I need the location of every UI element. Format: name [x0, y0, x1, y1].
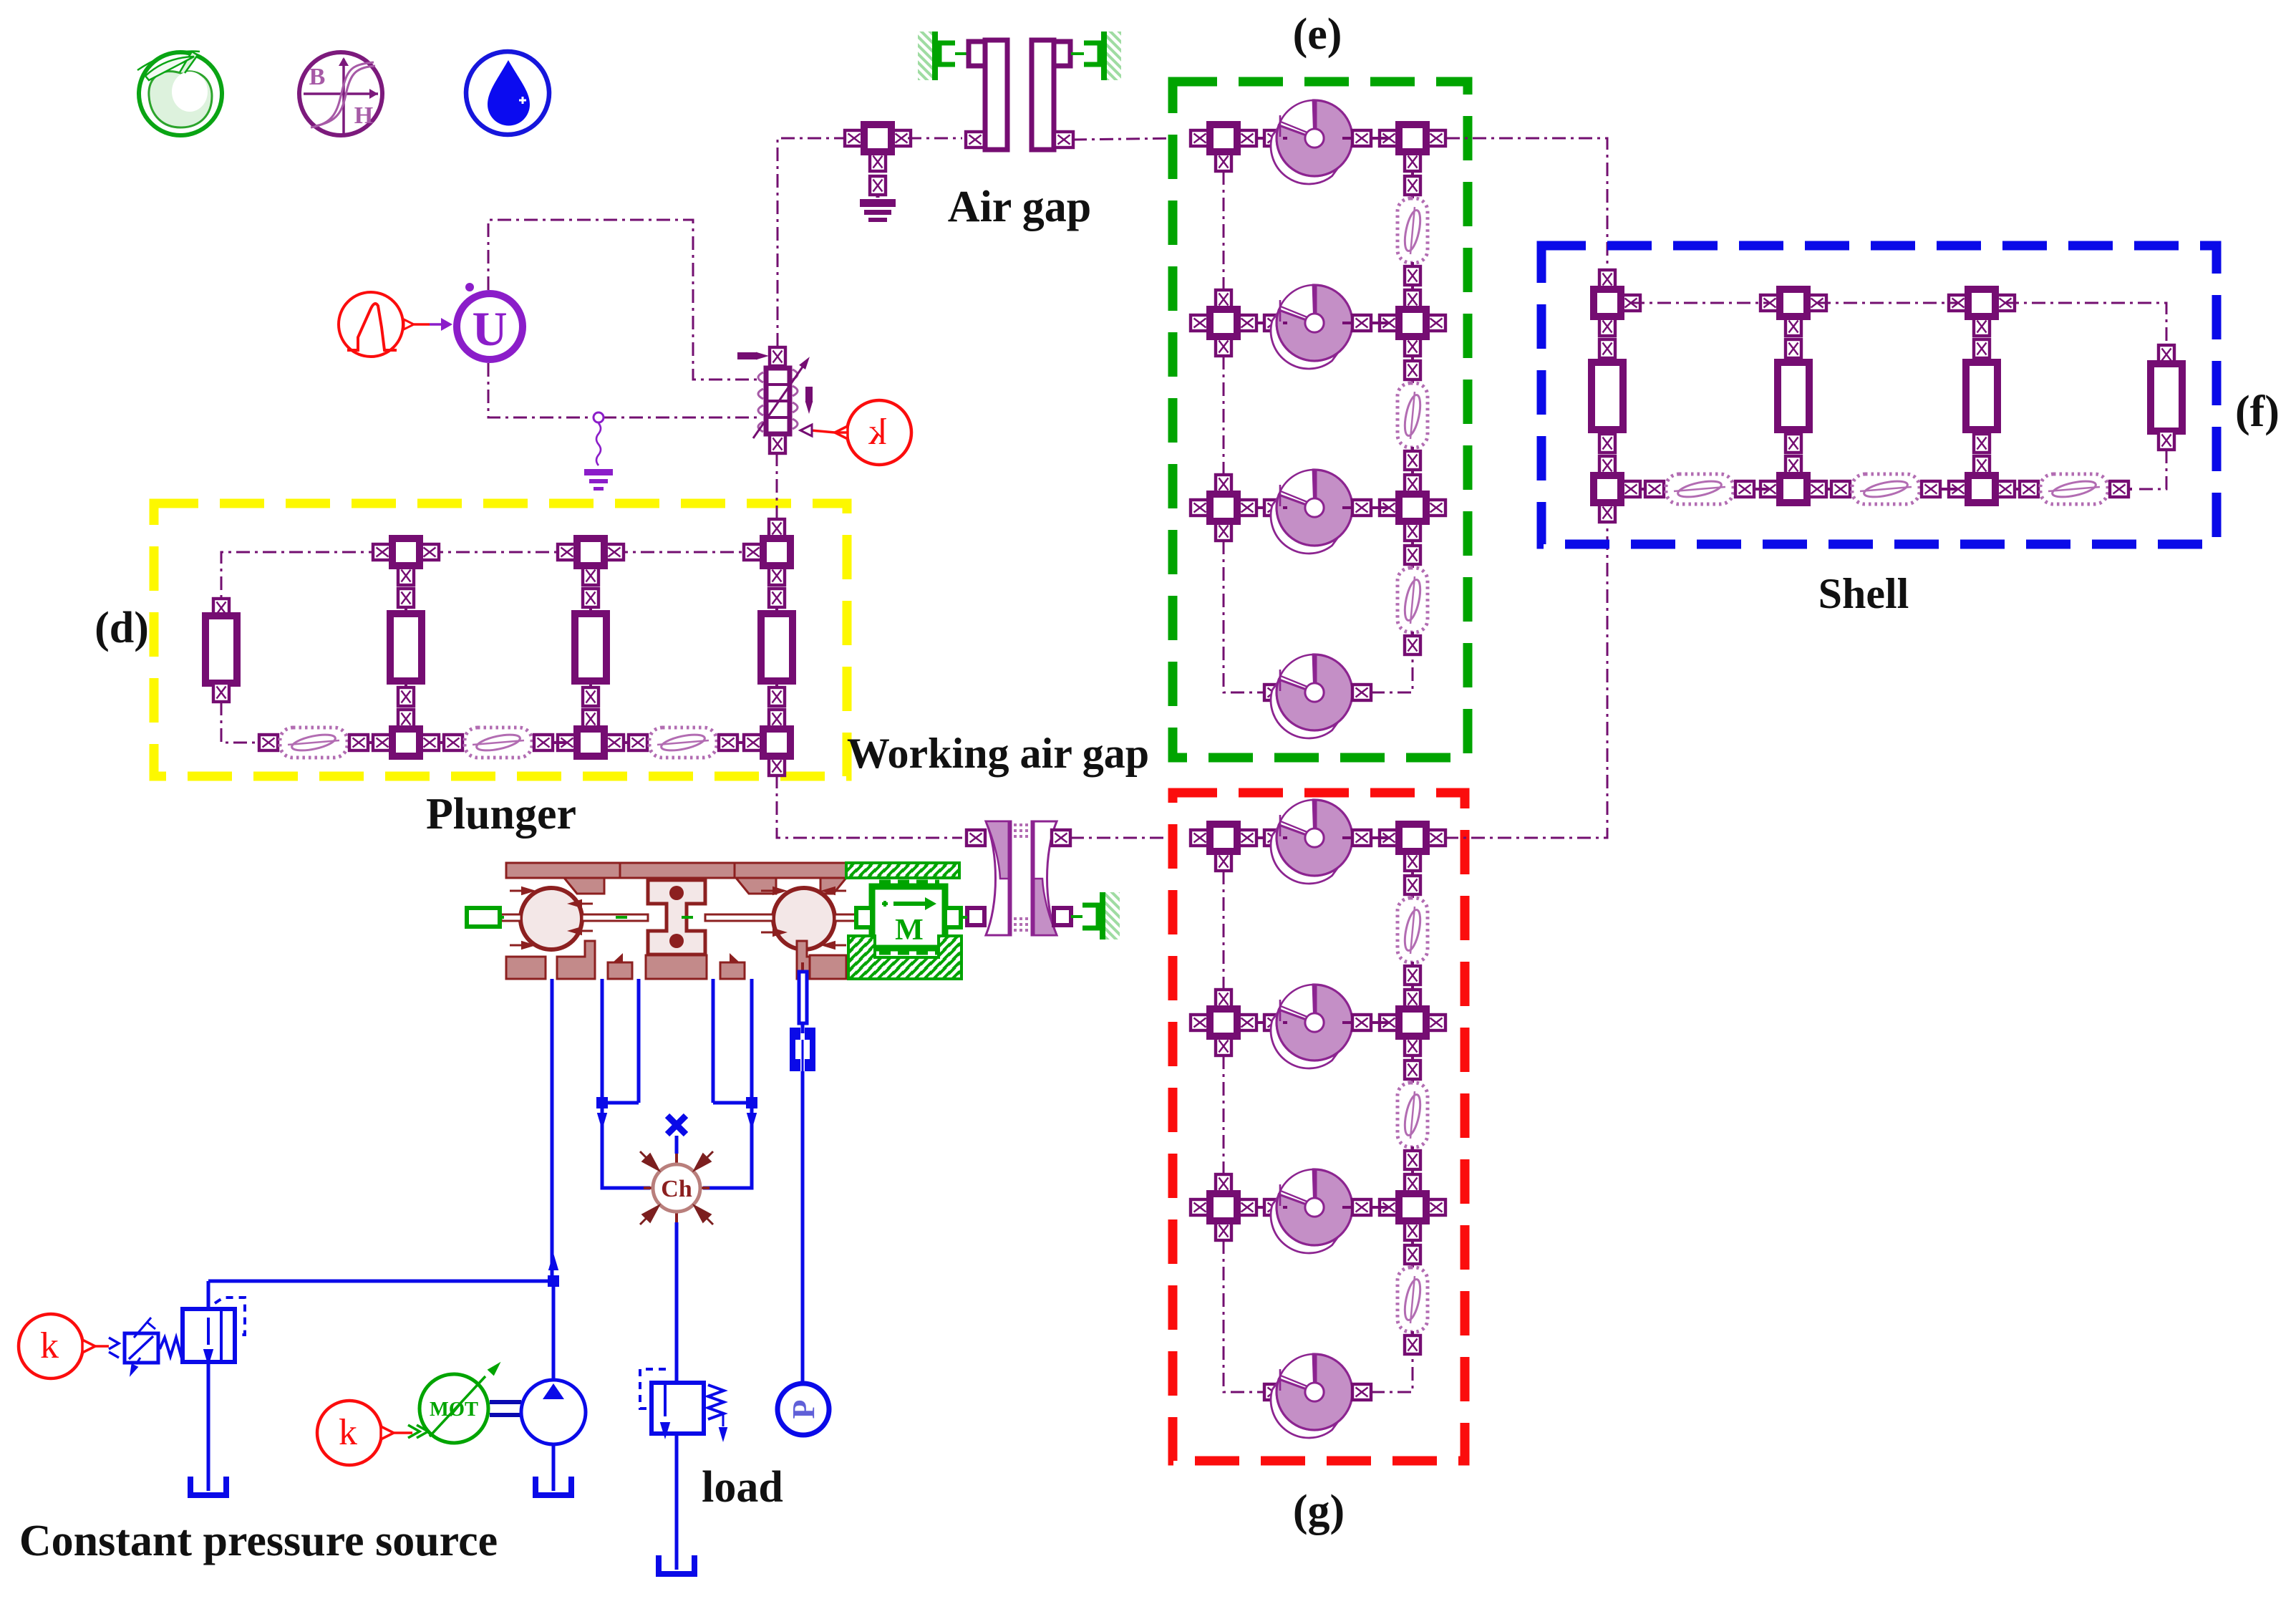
- port g row3 right: [1352, 1199, 1371, 1215]
- link: [368, 741, 374, 744]
- svg-text:U: U: [472, 301, 507, 356]
- svg-text:k: k: [40, 1325, 59, 1366]
- magnetic junction shell bot1: [1594, 456, 1640, 522]
- wire plunger col1 bottom corner: [221, 702, 259, 743]
- link: [1411, 1239, 1414, 1268]
- electrical ground: [584, 469, 613, 491]
- spool valve rods: [501, 914, 856, 921]
- gain k input to relief valve: [19, 1314, 119, 1378]
- wire air-gap junction to coil: [778, 138, 848, 347]
- wire shell top row to col4: [2005, 303, 2166, 345]
- svg-text:(e): (e): [1293, 10, 1342, 59]
- gain k input to motor: [317, 1401, 428, 1465]
- port caps d2 right: [534, 735, 553, 750]
- dashed box (f) shell group: [1541, 246, 2217, 544]
- electromagnetic converter (coil): [737, 347, 813, 453]
- port caps d2 left: [444, 735, 462, 750]
- port g caps2 bottom: [1405, 1151, 1420, 1169]
- leakage permeance e 3: [1398, 568, 1428, 632]
- svg-text:load: load: [702, 1463, 783, 1512]
- magnetic junction g R2: [1380, 990, 1445, 1055]
- leakage permeance g 1: [1398, 898, 1428, 962]
- port e row1 right: [1352, 130, 1371, 146]
- magnetic junction shell bot2: [1760, 456, 1826, 503]
- port g row1 left: [1264, 830, 1283, 846]
- port caps f3 left: [2020, 481, 2038, 497]
- link: [1411, 262, 1414, 266]
- wire e left column 2: [1223, 356, 1225, 475]
- port e row1 left: [1264, 130, 1283, 146]
- label (g): [1293, 1487, 1345, 1535]
- motor MOT: [420, 1362, 501, 1443]
- port e row2 left: [1264, 315, 1283, 331]
- link: [1256, 137, 1389, 140]
- link: [2014, 488, 2132, 491]
- spool valve bottom rail: [506, 941, 846, 979]
- magnetic junction shell bot3: [1949, 456, 2015, 503]
- port g row4 left: [1264, 1384, 1283, 1400]
- reluctance plunger R2 column: [390, 589, 422, 706]
- magnetic junction e R3: [1380, 475, 1445, 541]
- port g row4 right: [1352, 1384, 1371, 1400]
- pressure control throttle: [125, 1318, 183, 1377]
- svg-text:Air gap: Air gap: [948, 183, 1091, 231]
- port e caps2 bottom: [1405, 451, 1420, 470]
- wire shell top row a: [1631, 302, 1768, 304]
- magnetic junction plunger bot2: [373, 710, 439, 756]
- dashed box (e): [1173, 82, 1468, 758]
- port caps f3 right: [2110, 481, 2128, 497]
- magnetic junction shell top3: [1949, 289, 2015, 336]
- label Plunger: [426, 790, 576, 839]
- wire U- toward ground node: [488, 363, 594, 417]
- magnetic junction plunger top3: [558, 538, 624, 585]
- motor shaft: [490, 1402, 521, 1415]
- wire e left column 1: [1223, 171, 1225, 290]
- svg-text:M: M: [895, 914, 924, 947]
- port e row4 left: [1264, 685, 1283, 700]
- label (d): [95, 604, 149, 652]
- hydraulic tank (load): [659, 1554, 694, 1574]
- label (f): [2235, 387, 2280, 436]
- hydraulic line load to tank: [675, 1434, 679, 1555]
- label Shell: [1818, 570, 1909, 617]
- label load: [702, 1463, 783, 1512]
- wire plunger top row b: [430, 551, 567, 554]
- port to magnetic ground: [870, 176, 886, 195]
- link: [1411, 539, 1414, 569]
- icon drop (hydraulic library): [466, 52, 549, 135]
- hydraulic line to orifice: [799, 962, 807, 1033]
- link: [1411, 285, 1414, 290]
- plugged port X: [667, 1116, 686, 1154]
- port g caps1 bottom: [1405, 966, 1420, 985]
- wire plunger col1 top corner: [221, 552, 382, 599]
- spool valve body top rail: [506, 863, 846, 894]
- magnetic junction plunger top4: [744, 519, 790, 585]
- wire g bottom left corner: [1224, 1240, 1264, 1392]
- svg-text:k: k: [339, 1412, 357, 1453]
- port e row3 right: [1352, 500, 1371, 516]
- magnetic junction e R1: [1380, 125, 1445, 171]
- port g caps2 top: [1405, 1061, 1420, 1079]
- wire plunger top row c: [614, 551, 753, 554]
- hydraulic port (left pilot): [467, 908, 504, 927]
- link: [1411, 1331, 1414, 1335]
- gain k input to coil: [800, 400, 911, 465]
- hydraulic line supply tee: [208, 1253, 559, 1287]
- magnetic ground (air gap): [860, 199, 896, 222]
- port e row2 right: [1352, 315, 1371, 331]
- leakage permeance d3: [649, 728, 717, 758]
- port e caps2 top: [1405, 361, 1420, 380]
- magnetic junction g R1: [1380, 824, 1445, 871]
- port g row1 right: [1352, 830, 1371, 846]
- leakage permeance e 2: [1398, 383, 1428, 448]
- wire U+ to coil terminal: [488, 220, 762, 380]
- port g caps1 top: [1405, 876, 1420, 894]
- signal wire to voltage source: [404, 318, 452, 331]
- hydraulic tank (pump): [536, 1475, 571, 1495]
- leakage permeance g 2: [1398, 1083, 1428, 1147]
- wire coil to plunger: [776, 453, 778, 520]
- svg-text:Ch: Ch: [661, 1176, 692, 1202]
- port caps d1 right: [349, 735, 368, 750]
- port e caps1 top: [1405, 176, 1420, 195]
- label Air gap: [948, 183, 1091, 231]
- leakage permeance f2: [1852, 474, 1919, 504]
- port caps d1 left: [259, 735, 278, 750]
- link: [1411, 354, 1414, 384]
- magnetic junction e R2: [1380, 290, 1445, 356]
- reluctance plunger R3 column: [575, 589, 606, 706]
- svg-text:(d): (d): [95, 604, 149, 652]
- orifice restrictor: [790, 1028, 815, 1071]
- hydraulic tank (source): [190, 1475, 226, 1495]
- right mechanical anchor: [1071, 892, 1120, 939]
- link: [876, 195, 880, 198]
- wire g left column 1: [1223, 871, 1225, 990]
- reluctance plunger R4 column: [761, 589, 793, 706]
- hydraulic line pump up: [552, 1281, 556, 1380]
- port caps d3 left: [629, 735, 647, 750]
- magnetic junction shell top1: [1594, 270, 1640, 336]
- link: [1411, 170, 1414, 199]
- port caps f1 right: [1735, 481, 1754, 497]
- reluctance shell R4 column: [2151, 345, 2182, 450]
- magnetic junction plunger top2: [373, 538, 439, 585]
- magnetic core element e row1: [1271, 100, 1352, 184]
- port e caps1 bottom: [1405, 266, 1420, 285]
- link: [1411, 632, 1414, 636]
- link: [623, 741, 745, 744]
- wire shell col4 to bottom row: [2139, 450, 2166, 489]
- wire shell top row b: [1817, 302, 1957, 304]
- magnetic core element g row4: [1271, 1354, 1352, 1438]
- label Working air gap: [847, 730, 1149, 777]
- reluctance shell R1 column: [1592, 339, 1623, 453]
- leakage permeance d1: [280, 728, 347, 758]
- pressure relief valve (source): [183, 1298, 245, 1366]
- spool valve left piston: [510, 887, 593, 950]
- wire junction to air-gap left pole: [908, 137, 962, 140]
- mass cradle (green hatched): [848, 936, 961, 979]
- link: [1411, 1146, 1414, 1151]
- dashed box (g): [1173, 793, 1465, 1461]
- hydraulic line A to chamber: [602, 1103, 650, 1188]
- magnetic junction g R3: [1380, 1174, 1445, 1240]
- port g row2 right: [1352, 1015, 1371, 1030]
- port caps f2 left: [1831, 481, 1850, 497]
- port g row3 left: [1264, 1199, 1283, 1215]
- port e caps3 bottom: [1405, 636, 1420, 654]
- port e row4 right: [1352, 685, 1371, 700]
- leakage permeance g 3: [1398, 1267, 1428, 1332]
- relief valve (load): [640, 1369, 727, 1442]
- svg-text:Working air gap: Working air gap: [847, 730, 1149, 777]
- voltage source U: [457, 283, 523, 359]
- hydraulic line A1: [601, 979, 604, 1103]
- link: [1411, 1169, 1414, 1174]
- svg-text:(f): (f): [2235, 387, 2280, 436]
- link: [1256, 1021, 1389, 1024]
- hydraulic pump: [521, 1380, 586, 1444]
- chamber Ch: [640, 1151, 713, 1224]
- node electrical (junction): [594, 412, 762, 465]
- port g row2 left: [1264, 1015, 1283, 1030]
- magnetic junction plunger bot4: [744, 710, 790, 776]
- magnetic junction e L3: [1191, 475, 1256, 541]
- magnetic junction g L3: [1191, 1174, 1256, 1240]
- svg-text:k: k: [868, 412, 887, 453]
- leakage permeance f3: [2040, 474, 2108, 504]
- magnetic core element e row4: [1271, 654, 1352, 738]
- wire air gap to stator box: [1073, 138, 1177, 140]
- magnetic junction plunger bot3: [558, 710, 624, 756]
- port e caps3 top: [1405, 546, 1420, 564]
- magnetic junction g L2: [1191, 990, 1256, 1055]
- link: [1411, 869, 1414, 899]
- port e row3 left: [1264, 500, 1283, 516]
- hydraulic line B1: [713, 979, 752, 1103]
- wire stator box to shell box: [1446, 138, 1607, 271]
- hydraulic line B2: [746, 979, 757, 1130]
- icon B-H hysteresis (magnetic library): [299, 52, 382, 135]
- svg-text:Plunger: Plunger: [426, 790, 576, 839]
- mass block M: [856, 881, 967, 953]
- magnetic junction e L1: [1191, 125, 1256, 171]
- port g caps3 bottom: [1405, 1335, 1420, 1354]
- magnetic T-junction (air gap): [845, 125, 911, 171]
- leakage permeance d2: [465, 728, 532, 758]
- reluctance shell R3 column: [1966, 339, 1997, 453]
- port caps d3 right: [719, 735, 737, 750]
- magnetic core element g row2: [1271, 985, 1352, 1068]
- hydraulic line pump to tank: [552, 1444, 556, 1477]
- svg-text:B: B: [309, 64, 326, 90]
- link: [1256, 1206, 1389, 1209]
- working air gap element: [967, 821, 1071, 935]
- magnetic junction e L2: [1191, 290, 1256, 356]
- link: [1411, 447, 1414, 451]
- magnetic core element g row1: [1271, 800, 1352, 884]
- wire g left column 2: [1223, 1055, 1225, 1174]
- link: [1826, 488, 1957, 491]
- link: [1411, 470, 1414, 475]
- link: [438, 741, 566, 744]
- magnetic junction shell top2: [1760, 289, 1826, 336]
- reluctance shell R2 column: [1778, 339, 1809, 453]
- label (e): [1293, 10, 1342, 59]
- link: [1256, 322, 1389, 324]
- magnetic core element e row2: [1271, 285, 1352, 369]
- link: [1256, 506, 1389, 509]
- link: [1411, 1054, 1414, 1083]
- magnetic junction g L1: [1191, 824, 1256, 871]
- wire plunger to working air gap: [777, 775, 962, 838]
- magnetic core element g row3: [1271, 1169, 1352, 1253]
- link: [1639, 488, 1768, 491]
- air gap element: [918, 32, 1121, 150]
- svg-text:(g): (g): [1293, 1487, 1345, 1535]
- dashed box (d) plunger group: [154, 503, 847, 776]
- svg-text:Constant pressure source: Constant pressure source: [19, 1517, 498, 1565]
- label Constant pressure source: [19, 1517, 498, 1565]
- spool valve right piston: [761, 887, 846, 950]
- hydraulic line orifice to gauge: [801, 1071, 805, 1383]
- hydraulic line B to chamber: [703, 1103, 752, 1188]
- hydraulic line P (pump to valve): [551, 979, 554, 1281]
- wire e bottom right corner: [1371, 654, 1413, 692]
- port caps f1 left: [1645, 481, 1664, 497]
- signal source (input waveform): [339, 292, 403, 357]
- svg-text:P: P: [786, 1400, 821, 1419]
- reluctance plunger R1: [205, 599, 237, 702]
- magnetic core element e row3: [1271, 470, 1352, 554]
- icon fruit (mechanical library): [137, 52, 222, 135]
- port g caps3 top: [1405, 1245, 1420, 1264]
- spool valve center land: [648, 880, 705, 955]
- hydraulic line chamber to load valve: [675, 1222, 679, 1383]
- pressure gauge P: [778, 1383, 829, 1435]
- spool valve moving sleeve (green hatched): [846, 863, 959, 878]
- link: [1411, 962, 1414, 966]
- hydraulic line relief to junction: [207, 1281, 210, 1309]
- hydraulic line relief to tank: [207, 1362, 210, 1477]
- leakage permeance e 1: [1398, 198, 1428, 263]
- wire e bottom left corner: [1224, 541, 1264, 692]
- port caps f2 right: [1922, 481, 1940, 497]
- wire g bottom right corner: [1371, 1354, 1413, 1392]
- wire working air gap to mover box: [1070, 837, 1177, 839]
- link: [1256, 836, 1389, 839]
- wire mover box to shell box: [1445, 522, 1607, 838]
- hydraulic line A2: [596, 979, 639, 1130]
- link: [1411, 985, 1414, 990]
- leakage permeance f1: [1666, 474, 1733, 504]
- svg-text:H: H: [354, 102, 373, 129]
- svg-text:Shell: Shell: [1818, 570, 1909, 617]
